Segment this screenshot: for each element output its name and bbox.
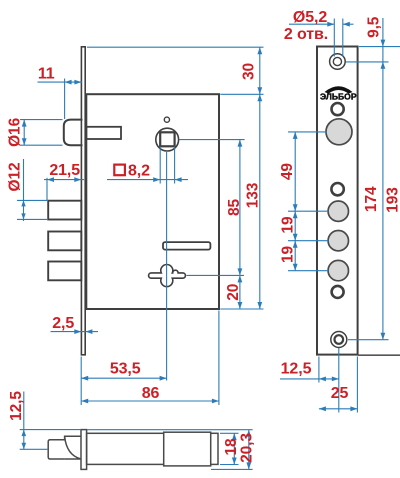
extension line from deadbolt 1 bottom xyxy=(17,218,47,220)
extension line from faceplate strip bottom left xyxy=(80,357,82,406)
dimension 20,3: dim line xyxy=(248,430,250,470)
deadbolt 2 xyxy=(48,232,81,251)
extension line from latch left edge xyxy=(64,79,66,120)
svg-text:20,3: 20,3 xyxy=(239,433,256,463)
dimension 85: dim line xyxy=(239,140,241,276)
extension line from top screw hole center xyxy=(346,61,389,63)
dimension 18: dim line xyxy=(233,433,235,464)
svg-text:21,5: 21,5 xyxy=(49,162,80,179)
extension line from square hole left edge xyxy=(159,147,161,184)
svg-text:Ø16: Ø16 xyxy=(7,117,24,146)
svg-text:19: 19 xyxy=(280,246,297,264)
dimension 12,5 (side view): dim line xyxy=(23,392,25,450)
svg-text:193: 193 xyxy=(385,187,400,213)
dimension 30 and 133 shared dim line xyxy=(259,47,261,309)
deadbolt 3 xyxy=(48,262,81,281)
svg-text:2 отв.: 2 отв. xyxy=(284,26,328,43)
lock body xyxy=(86,94,219,309)
extension line from body bottom edge xyxy=(220,308,263,310)
svg-text:53,5: 53,5 xyxy=(110,360,141,377)
extension line from faceplate strip top xyxy=(87,46,264,48)
extension line from body right edge xyxy=(218,311,220,406)
dimension 25: dim line xyxy=(319,408,358,410)
svg-text:133: 133 xyxy=(245,182,262,208)
body side xyxy=(87,433,218,464)
dimension 9,5 and 174 shared dim line xyxy=(382,18,384,340)
spindle circle xyxy=(156,128,179,151)
keyhole xyxy=(149,265,186,287)
extension line from big hole center xyxy=(288,131,327,133)
extension line from screw hole left edge xyxy=(333,19,335,57)
svg-text:ЭЛЬБОР: ЭЛЬБОР xyxy=(320,92,357,102)
dimension square 8,2: dim line xyxy=(107,179,188,181)
faceplate strip (edge view) xyxy=(81,47,85,355)
faceplate xyxy=(317,47,358,355)
faceplate bar xyxy=(81,430,87,470)
svg-text:25: 25 xyxy=(331,385,349,402)
svg-text:19: 19 xyxy=(280,216,297,234)
latch tail xyxy=(86,127,121,139)
dimension Ø16: dim line xyxy=(23,120,25,146)
pin circle xyxy=(164,117,169,122)
svg-text:8,2: 8,2 xyxy=(128,162,150,179)
extension line from square hole right edge xyxy=(174,147,176,184)
extension line from side faceplate top right xyxy=(87,429,253,431)
hole small 1 xyxy=(332,103,344,115)
svg-text:30: 30 xyxy=(241,63,258,80)
latch tip xyxy=(48,440,64,459)
slot xyxy=(163,242,210,250)
latch bolt head xyxy=(64,120,83,146)
svg-text:2,5: 2,5 xyxy=(52,315,74,332)
screw hole bottom xyxy=(331,332,347,348)
svg-text:12,5: 12,5 xyxy=(281,360,312,377)
extension line from gray hole 2 center xyxy=(288,240,329,242)
svg-text:85: 85 xyxy=(226,199,243,217)
dimension 20: arrows and dim line xyxy=(238,275,243,282)
gray hole 1 xyxy=(328,201,348,221)
logo ЭЛЬБОР xyxy=(325,86,353,93)
extension line from keyhole center xyxy=(187,274,245,276)
extension line from side faceplate top left xyxy=(20,429,81,431)
extension line from latch top xyxy=(20,119,63,121)
svg-text:11: 11 xyxy=(38,65,55,82)
latch wedge xyxy=(65,436,81,459)
hole small 2 xyxy=(331,183,343,195)
extension line from bottom screw hole center xyxy=(348,339,389,341)
svg-text:49: 49 xyxy=(279,163,296,181)
dimension 11: dim line xyxy=(38,81,83,83)
faceplate bottom edge extension xyxy=(358,354,400,356)
svg-text:12,5: 12,5 xyxy=(8,391,25,421)
extension line from spindle center xyxy=(179,139,245,141)
svg-text:Ø12: Ø12 xyxy=(6,163,23,192)
extension line from latch centerline xyxy=(20,448,48,450)
svg-text:86: 86 xyxy=(142,385,160,402)
extension line from gray hole 1 center xyxy=(288,210,329,212)
extension line from faceplate left edge down xyxy=(318,357,320,383)
hole small 3 xyxy=(332,286,344,298)
cover plate xyxy=(164,432,211,466)
extension line from side body top xyxy=(220,432,239,434)
screw hole top xyxy=(330,54,346,70)
dimension square 8,2: square symbol xyxy=(114,165,125,176)
deadbolt 1 xyxy=(48,201,81,220)
dimension Ø12: dim line xyxy=(23,159,25,221)
gray hole 3 xyxy=(328,260,348,280)
svg-text:174: 174 xyxy=(363,186,380,212)
extension line from side faceplate bottom xyxy=(211,468,253,470)
vertical centerline through spindle and keyhole xyxy=(166,152,168,381)
extension line from gray hole 3 center xyxy=(288,270,329,272)
extension line from side body bottom xyxy=(220,464,239,466)
dimension 86: dim line xyxy=(81,400,219,402)
extension line from body top edge xyxy=(220,93,263,95)
dimension 21,5: dim line xyxy=(44,179,84,181)
extension line from screw hole right edge xyxy=(342,19,344,57)
dimensions 49/19/19 shared dim line xyxy=(294,132,296,271)
dimension 2,5: dim line xyxy=(51,331,99,333)
dimension Ø5,2: dim line left part xyxy=(289,23,334,25)
dimension 53,5: dim line xyxy=(81,377,166,379)
svg-text:20: 20 xyxy=(225,284,242,301)
extension line from faceplate right edge down xyxy=(356,357,358,413)
svg-text:9,5: 9,5 xyxy=(366,16,383,38)
svg-text:Ø5,2: Ø5,2 xyxy=(293,9,327,26)
extension line from deadbolt left edge xyxy=(46,178,48,200)
gray hole 2 xyxy=(328,231,348,251)
extension line from bottom screw centerline down xyxy=(338,348,340,413)
extension line from deadbolt 1 top xyxy=(17,199,47,201)
spindle square hole xyxy=(160,132,174,146)
dimension 133: bottom arrow xyxy=(257,302,262,309)
hole big gray xyxy=(326,119,352,145)
extension line from faceplate top edge xyxy=(359,46,400,48)
extension line from latch bottom xyxy=(20,144,63,146)
dimension Ø5,2: dim line right part xyxy=(343,23,354,25)
dimension 12,5 (faceplate): dim line xyxy=(280,378,339,380)
